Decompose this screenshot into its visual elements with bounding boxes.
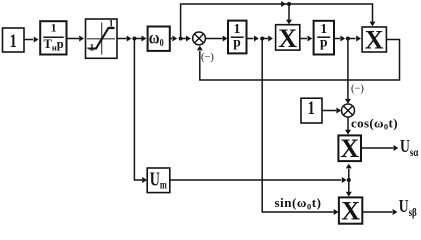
svg-text:X: X	[340, 134, 359, 163]
svg-text:(−): (−)	[351, 84, 364, 95]
svg-text:cos(ω0t): cos(ω0t)	[351, 115, 398, 131]
svg-text:1: 1	[10, 30, 17, 51]
svg-text:1: 1	[109, 20, 114, 30]
svg-text:1: 1	[308, 97, 315, 118]
svg-text:X: X	[278, 24, 297, 53]
svg-text:Usα: Usα	[400, 138, 419, 160]
svg-text:p: p	[320, 35, 328, 50]
svg-text:X: X	[365, 25, 384, 54]
svg-text:(−): (−)	[201, 52, 214, 63]
svg-text:1: 1	[51, 22, 57, 34]
svg-text:-1: -1	[86, 44, 94, 54]
svg-text:X: X	[341, 197, 360, 226]
svg-text:sin(ω0t): sin(ω0t)	[275, 195, 322, 211]
svg-text:Usβ: Usβ	[399, 198, 418, 220]
svg-text:p: p	[233, 35, 241, 50]
